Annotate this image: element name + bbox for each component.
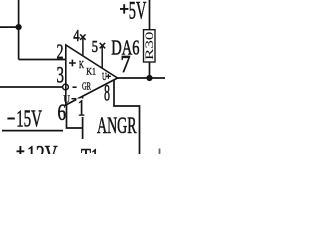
pin 5 stub wire: [101, 46, 103, 69]
minus sign inverting input: [73, 86, 77, 88]
svg-text:7: 7: [121, 52, 131, 78]
svg-text:3: 3: [57, 63, 65, 88]
pin 4 stub wire: [82, 37, 84, 56]
svg-text:4: 4: [73, 26, 80, 45]
wire pin 8: [114, 80, 140, 154]
wire output pin 7 to right edge: [118, 77, 166, 79]
wire pin 1: [82, 97, 84, 139]
wire +5V down to resistor: [149, 0, 151, 30]
rail bar: [2, 130, 63, 132]
wire pin 6: [67, 104, 83, 128]
node junction dot: [16, 24, 22, 30]
svg-text:8: 8: [104, 81, 110, 106]
power label -15V with rail underline: [7, 118, 14, 120]
svg-text:6: 6: [58, 100, 67, 125]
wire horizontal from left edge to junction: [0, 26, 19, 28]
svg-text:12V: 12V: [27, 142, 58, 154]
svg-text:R30: R30: [142, 32, 156, 61]
svg-text:K: K: [79, 60, 85, 71]
pin number 1 (with knockout): [77, 99, 87, 118]
op-amp DA6 triangle body: [66, 45, 118, 105]
svg-text:GR: GR: [82, 82, 91, 93]
node junction dot on output net: [146, 75, 152, 81]
wire resistor bottom lead: [149, 62, 151, 78]
wire pin 2 horizontal: [19, 59, 66, 61]
partial glyph at bottom right edge: [159, 149, 161, 155]
svg-text:2: 2: [57, 40, 64, 64]
resistor R30 body: [144, 30, 156, 62]
wire vertical from top edge on pin-2 net: [18, 0, 20, 60]
svg-text:15V: 15V: [16, 106, 42, 132]
svg-text:T1: T1: [81, 145, 99, 154]
pin 4 no-connect cross: [80, 34, 86, 39]
inversion bubble on pin 3: [63, 84, 69, 90]
plus sign non-inverting input: [69, 60, 76, 67]
power label +5V: [120, 4, 128, 13]
svg-text:ANGR: ANGR: [97, 113, 137, 138]
svg-text:5V: 5V: [129, 0, 147, 25]
svg-text:K1: K1: [86, 68, 96, 78]
pin 5 no-connect cross: [100, 43, 106, 48]
svg-text:1: 1: [78, 96, 86, 122]
svg-text:5: 5: [92, 37, 98, 56]
wire pin 3 horizontal from left edge: [0, 86, 62, 88]
power label +12V cut at bottom edge: [17, 146, 25, 154]
